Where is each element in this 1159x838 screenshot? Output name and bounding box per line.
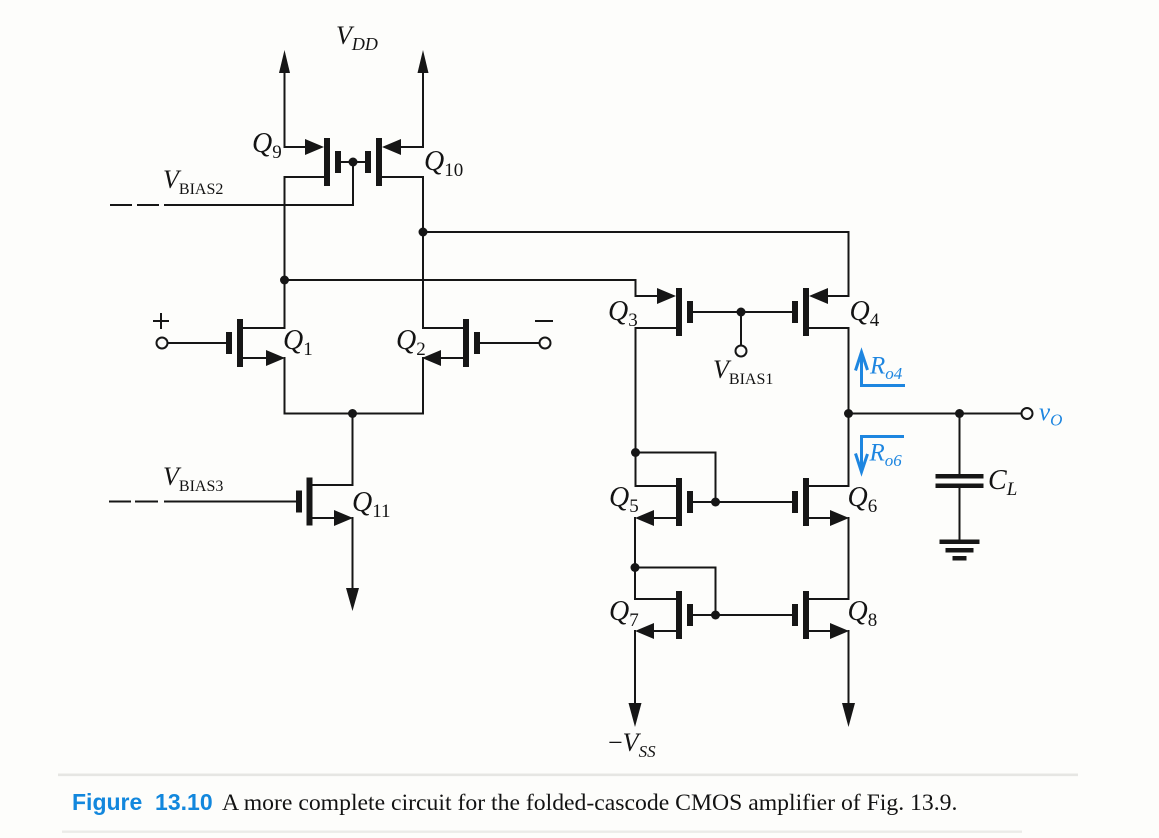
label plus [154, 314, 168, 328]
node Q3-Q4 gate junction [737, 308, 746, 317]
svg-text:Figure 13.10: Figure 13.10 [72, 789, 213, 815]
svg-text:VBIAS1: VBIAS1 [713, 355, 773, 388]
svg-text:Q11: Q11 [352, 487, 391, 522]
node A (Q1 drain / Q9 drain) [280, 276, 289, 285]
wire Q7 source to -VSS arrow [629, 631, 642, 727]
svg-text:Ro4: Ro4 [869, 353, 903, 384]
wire Q10 drain down to node B and Q2 drain [422, 177, 424, 328]
wire common source rail [285, 413, 424, 415]
transistor Q7 (NMOS) [635, 591, 792, 639]
wire Q3 drain down to Q5 drain [635, 328, 637, 486]
node Q7 gate junction [711, 611, 720, 620]
svg-text:CL: CL [988, 465, 1017, 500]
svg-text:Q7: Q7 [609, 596, 639, 631]
power VDD supply arrow right [418, 50, 429, 146]
wire Q9 drain down to node A and Q1 drain [284, 177, 286, 328]
transistor Q9 (PMOS) [285, 138, 354, 186]
transistor Q2 (NMOS) [422, 319, 540, 367]
wire Q5 source down to Q7 drain [634, 518, 636, 599]
node common sources [348, 409, 357, 418]
node B (Q10 drain / Q2 drain) [419, 228, 428, 237]
label minus [536, 320, 552, 322]
svg-text:vO: vO [1039, 399, 1062, 430]
input - terminal [540, 338, 551, 349]
scan artifact faint lines (decorative) [58, 774, 1078, 777]
annotation Ro4 (blue arrow up) [856, 352, 906, 386]
wire Q7 diode connection [635, 568, 716, 616]
node Q5 source / Q7 gate link [631, 563, 640, 572]
svg-text:VBIAS3: VBIAS3 [163, 462, 223, 495]
svg-text:VBIAS2: VBIAS2 [163, 165, 223, 198]
power VDD supply arrow left [279, 50, 290, 146]
svg-text:Q8: Q8 [848, 596, 878, 631]
wire output rail to vo [849, 413, 1022, 415]
wire VBIAS3 dashed stub [110, 501, 157, 503]
wire node B to Q4 source [423, 232, 849, 296]
wire common node to Q11 drain [352, 414, 354, 486]
svg-text:A more complete circuit for th: A more complete circuit for the folded-c… [222, 790, 957, 816]
svg-text:VDD: VDD [336, 21, 378, 54]
transistor Q3 (PMOS cascode) [636, 288, 742, 336]
wire Q8 source to -VSS arrow [842, 631, 855, 727]
input + terminal [157, 338, 168, 349]
svg-text:Q9: Q9 [252, 128, 282, 163]
wire Q1 source down [284, 358, 286, 414]
transistor Q4 (PMOS cascode) [741, 288, 849, 336]
wire gate junction to VBIAS2 line [352, 162, 354, 205]
wire Q5 diode connection [636, 453, 716, 503]
svg-text:Q10: Q10 [424, 146, 463, 181]
node Q5 gate junction [711, 498, 720, 507]
transistor Q1 (NMOS) [168, 319, 285, 367]
wire Q6 drain up to output node [848, 414, 850, 487]
transistor Q5 (NMOS) [635, 478, 792, 526]
annotation Ro6 (blue arrow down) [856, 437, 905, 473]
wire Q2 source down [422, 358, 424, 414]
node Q9-Q10 gate junction [349, 158, 358, 167]
wire node A to Q3 source [285, 280, 636, 296]
node Q3 drain / Q5 gate link [631, 448, 640, 457]
svg-text:Q5: Q5 [609, 482, 639, 517]
wire Q6 source down to Q8 drain [848, 518, 850, 599]
transistor Q11 (NMOS current source) [165, 478, 353, 527]
svg-text:Q1: Q1 [283, 325, 313, 360]
wire Q4 drain to output node [848, 328, 850, 414]
svg-text:Q6: Q6 [848, 482, 878, 517]
ground [940, 540, 980, 561]
wire Q11 source to -VSS arrow [346, 518, 359, 611]
transistor Q10 (PMOS) [353, 138, 423, 186]
node CL tap [955, 409, 964, 418]
capacitor CL [936, 414, 984, 540]
wire VBIAS2 dashed stub [111, 204, 158, 206]
VBIAS1 terminal [736, 312, 747, 357]
wire VBIAS2 line [165, 204, 353, 206]
svg-text:Ro6: Ro6 [869, 440, 903, 471]
vo terminal [1022, 408, 1033, 419]
svg-text:Q3: Q3 [608, 296, 638, 331]
transistor Q6 (NMOS) [792, 478, 849, 526]
svg-text:Q4: Q4 [850, 296, 880, 331]
svg-text:Q2: Q2 [396, 325, 426, 360]
svg-text:−VSS: −VSS [608, 728, 656, 761]
node output (Q4/Q6 drains) [844, 409, 853, 418]
transistor Q8 (NMOS) [792, 591, 849, 639]
